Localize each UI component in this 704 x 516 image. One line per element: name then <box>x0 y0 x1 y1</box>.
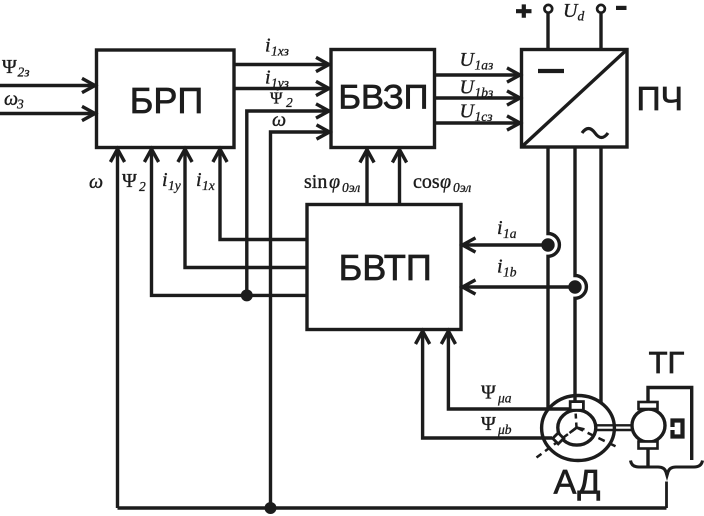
minus sign <box>616 6 627 10</box>
svg-text:i: i <box>265 35 271 57</box>
svg-text:1cз: 1cз <box>475 109 493 124</box>
block BVZP (БВЗП) <box>331 50 435 148</box>
wire psi2 feedback <box>152 149 308 295</box>
svg-text:Ψ: Ψ <box>481 413 496 435</box>
svg-text:0эл: 0эл <box>342 180 360 195</box>
svg-text:i: i <box>265 67 271 89</box>
wire cos to BVZP <box>398 150 401 205</box>
wire i1a tap to BVTP <box>463 243 549 246</box>
svg-text:1х: 1х <box>202 178 215 193</box>
motor dashed axis through diamond <box>537 428 577 458</box>
motor top sensor square <box>570 402 583 411</box>
svg-text:БВЗП: БВЗП <box>338 78 428 116</box>
svg-text:U: U <box>460 101 476 123</box>
wire i1b tap to BVTP <box>463 285 576 288</box>
svg-text:ТГ: ТГ <box>649 345 685 380</box>
svg-text:2: 2 <box>286 95 293 110</box>
wire omega feedback <box>116 149 119 508</box>
phase c wire <box>599 147 602 403</box>
TG bottom brush <box>639 442 658 449</box>
junction dot psi2 <box>241 289 253 301</box>
TG wire top loop <box>648 388 692 461</box>
wire i1x feedback <box>220 149 307 240</box>
terminal + circle <box>544 5 552 13</box>
motor AD outer circle <box>542 396 615 461</box>
svg-text:ω: ω <box>89 171 103 193</box>
wire omega to BVZP <box>271 132 330 508</box>
svg-text:d: d <box>578 9 585 24</box>
tacho TG circle <box>632 409 665 442</box>
wire Ud plus lead <box>546 13 549 50</box>
svg-text:i: i <box>497 217 503 239</box>
PCh AC symbol (~) <box>582 129 608 138</box>
wire i1yz BRP to BVZP <box>234 87 329 90</box>
svg-text:1b: 1b <box>503 265 517 280</box>
wire input psi2z <box>0 84 95 87</box>
svg-text:Ψ: Ψ <box>122 170 137 192</box>
terminal - circle <box>597 5 605 13</box>
plus sign <box>516 4 532 17</box>
svg-text:3: 3 <box>16 97 24 112</box>
svg-text:Ψ: Ψ <box>481 382 496 404</box>
svg-text:cos: cos <box>413 171 440 193</box>
wire U1az <box>435 73 521 76</box>
wire U1bz <box>435 96 521 99</box>
svg-text:μа: μа <box>497 391 512 406</box>
svg-text:1а: 1а <box>503 226 517 241</box>
svg-text:i: i <box>196 169 202 191</box>
svg-text:ω: ω <box>4 88 18 110</box>
block PCh (ПЧ) frequency converter <box>522 50 628 148</box>
svg-text:ω: ω <box>272 109 286 131</box>
svg-text:1aз: 1aз <box>475 58 494 73</box>
svg-text:2з: 2з <box>18 65 30 80</box>
junction dot omega rail <box>265 502 277 514</box>
svg-text:Ψ: Ψ <box>270 89 283 108</box>
wire psi2 to BVZP <box>247 111 329 295</box>
wire psi-mu-b <box>423 331 552 438</box>
svg-text:φ: φ <box>440 171 451 193</box>
sensor dot b <box>568 280 581 293</box>
PCh DC symbol (minus bar) <box>538 69 564 73</box>
curly brace under TG <box>631 461 703 476</box>
motor dashed axis vertical <box>576 411 577 428</box>
PCh diagonal <box>522 50 628 148</box>
wire TG output drop <box>665 482 668 509</box>
motor spoke lower-left <box>570 428 577 434</box>
TG wire bottom <box>646 449 649 467</box>
svg-text:U: U <box>460 49 476 71</box>
motor spoke right <box>577 428 585 430</box>
wire i1y feedback <box>185 149 307 268</box>
svg-text:БВТП: БВТП <box>339 247 432 288</box>
svg-text:1bз: 1bз <box>475 85 494 100</box>
wire U1cz <box>435 121 521 124</box>
TG terminal bracket <box>673 421 683 437</box>
svg-text:2: 2 <box>139 179 146 194</box>
svg-text:1хз: 1хз <box>271 44 289 59</box>
shaft <box>596 425 633 430</box>
TG top brush <box>639 402 658 409</box>
svg-text:μb: μb <box>497 422 512 437</box>
wire psi-mu-a <box>448 331 571 409</box>
wire input omega3 <box>0 112 95 115</box>
svg-text:φ: φ <box>329 171 340 193</box>
wire Ud minus lead <box>599 13 602 50</box>
svg-text:sin: sin <box>304 171 327 193</box>
block BRP (БРП) <box>97 50 235 148</box>
wire i1xz BRP to BVZP <box>234 63 329 66</box>
svg-text:i: i <box>162 169 168 191</box>
sensor dot a <box>541 238 554 251</box>
motor diamond sensor <box>553 433 564 444</box>
svg-text:1у: 1у <box>168 178 181 193</box>
block BVTP (БВТП) <box>307 205 461 330</box>
svg-text:i: i <box>497 256 503 278</box>
svg-text:АД: АД <box>554 464 601 502</box>
svg-text:ПЧ: ПЧ <box>636 81 682 118</box>
motor dashed axis to lower right <box>577 428 616 447</box>
phase a wire with sensor hop <box>548 147 559 410</box>
svg-text:Ψ: Ψ <box>2 56 17 78</box>
motor AD inner circle <box>558 410 596 445</box>
wire sin to BVZP <box>365 150 368 205</box>
svg-text:БРП: БРП <box>130 80 204 121</box>
wire bottom rail <box>118 506 667 509</box>
phase b wire with sensor hop <box>575 147 586 402</box>
svg-text:U: U <box>460 77 476 99</box>
svg-text:0эл: 0эл <box>453 180 471 195</box>
